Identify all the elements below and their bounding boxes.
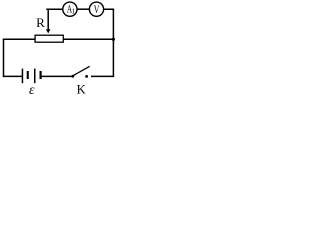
wire resistor row left lead xyxy=(3,38,35,40)
battery cell 2 long plate xyxy=(34,69,36,84)
arrowhead onto resistor xyxy=(46,29,51,33)
wire resistor row right lead xyxy=(63,38,113,40)
wire battery to switch xyxy=(42,75,72,77)
label epsilon (EMF) xyxy=(29,83,35,98)
svg-text:V: V xyxy=(94,4,100,16)
battery cell 1 short plate xyxy=(27,71,29,79)
ammeter A1 xyxy=(63,2,77,16)
wire left vertical xyxy=(3,39,5,76)
node junction dot xyxy=(112,38,115,41)
switch K contact dot right xyxy=(85,75,88,78)
svg-text:1: 1 xyxy=(72,8,76,16)
voltmeter V xyxy=(89,2,103,16)
wire top from bend to ammeter xyxy=(46,8,63,10)
resistor R body xyxy=(35,35,63,42)
label K xyxy=(77,83,86,97)
battery cell 1 long plate xyxy=(21,69,23,84)
switch K contact dot left xyxy=(71,75,74,78)
wire between meters xyxy=(77,8,89,10)
battery cell 2 short plate xyxy=(39,71,41,79)
switch K lever xyxy=(73,66,90,75)
wire switch to bottom-right corner xyxy=(91,75,114,77)
wire slider drop (rheostat tap) xyxy=(47,9,49,29)
svg-text:K: K xyxy=(77,83,86,97)
wire voltmeter to top-right corner and down right side xyxy=(104,9,114,76)
svg-text:ε: ε xyxy=(29,83,35,97)
svg-text:R: R xyxy=(36,15,45,30)
wire bottom left segment xyxy=(3,75,23,77)
label R xyxy=(36,15,45,30)
